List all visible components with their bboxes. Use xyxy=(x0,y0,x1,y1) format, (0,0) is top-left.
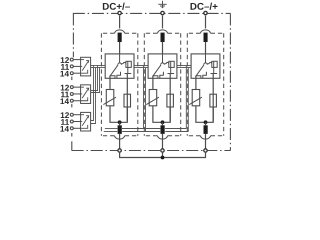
switch box module 3 xyxy=(191,54,220,78)
wire terminal 12 group 2 xyxy=(74,86,81,88)
module 3 dashed boundary top xyxy=(187,32,223,34)
terminal DC-/+ (top) xyxy=(204,11,207,14)
varistor module 1 xyxy=(103,90,116,106)
earth symbol xyxy=(158,1,166,8)
fuse in switch box module 1 xyxy=(121,61,131,73)
wire varistor to junction module 1 xyxy=(110,106,120,123)
thermal disconnector bottom module 3 xyxy=(204,125,208,134)
disconnect switch module 1 xyxy=(110,54,122,78)
wire terminal 11 group 1 xyxy=(74,65,81,67)
terminal 11 label group 2 xyxy=(61,92,69,98)
switch box module 1 xyxy=(105,54,134,78)
wire module 1 to bottom terminal xyxy=(119,134,121,149)
changeover switch group 1 xyxy=(81,60,89,74)
backup fuse module 1 xyxy=(124,94,131,107)
terminal 11 label group 3 xyxy=(61,119,69,125)
enclosure border top (dash-dot) xyxy=(73,12,231,14)
terminal 11 circle group 2 xyxy=(70,93,73,96)
disconnect switch module 2 xyxy=(153,54,165,78)
signal wires drop between modules 2-3 xyxy=(186,66,188,132)
module 3 dashed boundary bottom xyxy=(187,135,223,137)
module 2 dashed boundary right xyxy=(180,33,182,135)
terminal 14 circle group 3 xyxy=(70,127,73,130)
wire switch to varistor module 1 xyxy=(109,76,111,90)
label DC-/+ xyxy=(191,3,218,10)
wire terminal to module 1 xyxy=(119,16,121,29)
terminal 14 label group 1 xyxy=(60,71,69,77)
junction dot module 3 xyxy=(204,120,208,124)
signal wires group1 box to module 1 xyxy=(91,66,106,68)
terminal bottom module 2 xyxy=(161,149,164,152)
terminal 11 circle group 3 xyxy=(70,120,73,123)
wire module 3 to bottom terminal xyxy=(205,134,207,149)
module 2 dashed boundary bottom xyxy=(144,135,180,137)
signal wire horizontal run under modules (lower) xyxy=(104,131,189,133)
changeover contact box group 2 xyxy=(81,85,91,104)
module 1 dashed boundary top xyxy=(101,32,137,34)
enclosure border left tick below signal group 3 xyxy=(71,133,73,137)
disconnect switch module 3 xyxy=(196,54,208,78)
module 1 dashed boundary bottom xyxy=(101,135,137,137)
thermal disconnector top module 3 xyxy=(204,33,208,42)
signal wires module 2 to module 3 xyxy=(177,66,191,68)
wire terminal 12 group 1 xyxy=(74,59,81,61)
module 3 dashed boundary right xyxy=(223,33,225,135)
enclosure border right (dash-dot) xyxy=(229,13,231,150)
module 1 dashed boundary right xyxy=(137,33,139,135)
wire terminal 14 group 3 xyxy=(74,127,81,129)
fuse in switch box module 2 xyxy=(164,61,174,73)
plug-in contact top module 1 xyxy=(114,30,124,33)
terminal 14 label group 2 xyxy=(60,98,69,104)
module 1 dashed boundary left xyxy=(100,33,102,135)
terminal 14 circle group 1 xyxy=(70,72,73,75)
module 2 dashed boundary top xyxy=(144,32,180,34)
terminal earth (top) xyxy=(161,11,164,14)
varistor module 3 xyxy=(189,90,202,106)
terminal 11 circle group 1 xyxy=(70,65,73,68)
wire fuse to junction module 1 xyxy=(120,107,128,122)
plug-in contact bottom module 2 xyxy=(157,136,167,139)
module 2 dashed boundary left xyxy=(143,33,145,135)
terminal DC+/- (top) xyxy=(118,11,121,14)
label DC+/- xyxy=(103,3,130,10)
changeover contact box group 3 xyxy=(81,112,91,131)
terminal 12 label group 1 xyxy=(61,57,69,63)
earth bus wire (bottom) xyxy=(120,153,206,158)
signal wires riser to group 2 box xyxy=(91,66,100,93)
terminal 12 label group 3 xyxy=(61,112,69,118)
signal wire horizontal run under modules (upper) xyxy=(105,128,187,130)
terminal 12 circle group 1 xyxy=(70,58,73,61)
wire terminal to module 3 xyxy=(205,16,207,29)
thermal disconnector bottom module 1 xyxy=(118,125,122,134)
wire terminal 11 group 2 xyxy=(74,93,81,95)
wire fuse to junction module 2 xyxy=(163,107,171,122)
wire disconnector to switch box module 2 xyxy=(162,42,164,54)
changeover switch group 3 xyxy=(81,115,89,129)
thermal disconnector top module 1 xyxy=(118,33,122,42)
varistor module 2 xyxy=(146,90,159,106)
earth bus wire middle drop xyxy=(162,153,164,158)
wire terminal 14 group 1 xyxy=(74,72,81,74)
wire fuse to junction module 3 xyxy=(206,107,214,122)
terminal 14 circle group 2 xyxy=(70,99,73,102)
terminal bottom module 1 xyxy=(118,149,121,152)
enclosure border left upper segment (dash-dot) xyxy=(72,13,74,57)
terminal 14 label group 3 xyxy=(60,126,69,132)
wire varistor to junction module 3 xyxy=(196,106,206,123)
wire varistor to junction module 2 xyxy=(153,106,163,123)
junction dot module 2 xyxy=(161,120,165,124)
terminal bottom module 3 xyxy=(204,149,207,152)
enclosure border left lower segment (dash-dot) xyxy=(71,141,73,150)
thermal disconnector top module 2 xyxy=(161,33,165,42)
changeover contact box group 1 xyxy=(81,57,91,76)
signal wires riser to group 3 box xyxy=(91,66,96,124)
changeover switch group 2 xyxy=(81,87,89,101)
backup fuse module 3 xyxy=(210,94,217,107)
junction dot module 1 xyxy=(118,120,122,124)
module 3 dashed boundary left xyxy=(186,33,188,135)
wire terminal 11 group 3 xyxy=(74,121,81,123)
wire junction to disconnector module 1 xyxy=(119,122,121,125)
junction dot on earth bus xyxy=(161,156,165,160)
wire terminal 12 group 3 xyxy=(74,114,81,116)
wire fuse leg module 3 xyxy=(212,74,214,122)
signal wires module 1 to module 2 xyxy=(134,66,148,68)
terminal 12 circle group 2 xyxy=(70,86,73,89)
signal wires drop between modules 1-2 xyxy=(144,66,146,132)
plug-in contact top module 2 xyxy=(157,30,167,33)
plug-in contact bottom module 1 xyxy=(114,136,124,139)
wire junction to disconnector module 3 xyxy=(205,122,207,125)
fuse in switch box module 3 xyxy=(207,61,217,73)
terminal 12 label group 2 xyxy=(61,85,69,91)
wire disconnector to switch box module 1 xyxy=(119,42,121,54)
wire disconnector to switch box module 3 xyxy=(205,42,207,54)
switch box module 2 xyxy=(148,54,177,78)
wire fuse leg module 1 xyxy=(126,74,128,122)
wire switch to varistor module 2 xyxy=(152,76,154,90)
wire fuse leg module 2 xyxy=(169,74,171,122)
wire junction to disconnector module 2 xyxy=(162,122,164,125)
terminal 11 label group 1 xyxy=(61,64,69,70)
wire switch to varistor module 3 xyxy=(195,76,197,90)
plug-in contact bottom module 3 xyxy=(200,136,210,139)
wire module 2 to bottom terminal xyxy=(162,134,164,149)
enclosure border left tick between signal groups 2-3 xyxy=(71,104,73,108)
enclosure border left tick between signal groups 1-2 xyxy=(71,77,73,81)
backup fuse module 2 xyxy=(167,94,174,107)
enclosure border bottom (dash-dot) xyxy=(72,150,231,152)
wire terminal 14 group 2 xyxy=(74,100,81,102)
terminal 12 circle group 3 xyxy=(70,113,73,116)
wire terminal to module 2 xyxy=(162,16,164,29)
thermal disconnector bottom module 2 xyxy=(161,125,165,134)
plug-in contact top module 3 xyxy=(200,30,210,33)
